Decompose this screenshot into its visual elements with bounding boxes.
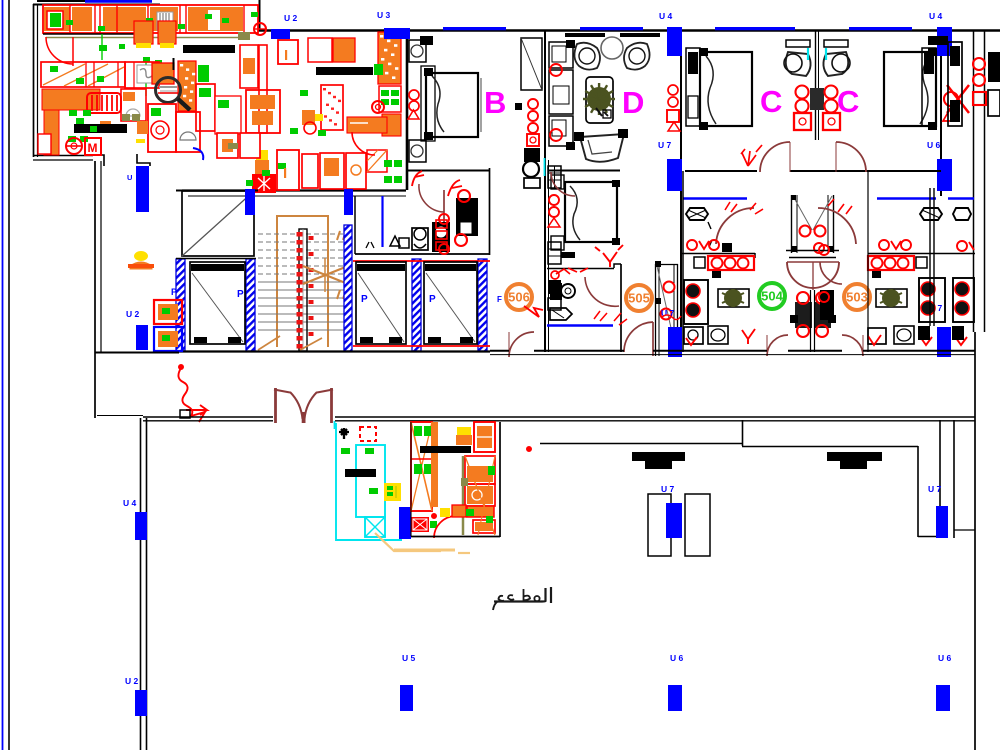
wall right boundary lower bbox=[974, 332, 976, 750]
wall kitchen vestibule east step bbox=[137, 154, 150, 166]
room D plant starburst bbox=[583, 83, 615, 115]
bath505 sink arrow bbox=[550, 308, 572, 320]
wall bath505 east bbox=[620, 264, 622, 352]
svg-text:504: 504 bbox=[761, 289, 783, 304]
wall corridor south segB bbox=[534, 350, 624, 352]
label arabic meem1 loop bbox=[534, 596, 539, 601]
corridor door 505 arc bbox=[624, 322, 653, 352]
label 504 plant table bbox=[717, 288, 719, 290]
kitchen unit with I symbol bbox=[277, 150, 299, 190]
room C1 red wall fixtures bbox=[668, 85, 678, 95]
kitchen lower-left orange column bbox=[44, 110, 59, 155]
buffet yellow-orange box top bbox=[457, 427, 471, 435]
person symbol body orange bbox=[130, 262, 152, 269]
utility red small stack bbox=[436, 220, 447, 228]
buffet cyan inner box bbox=[356, 445, 385, 517]
kitchen mid counter band red frame bbox=[41, 62, 125, 87]
wall bath505 north bbox=[547, 268, 614, 270]
Croom2 blue shower line bbox=[877, 197, 936, 200]
kitchen orange shelf bar right bbox=[347, 117, 387, 133]
wall right column enclosure bbox=[939, 420, 941, 538]
kitchen lower mid red boxes pair bbox=[217, 133, 238, 158]
svg-text:F: F bbox=[497, 295, 502, 304]
column marker U2 west bottom bbox=[135, 690, 147, 716]
hatched wall elev left outer bbox=[176, 259, 185, 351]
buffet cyan triangle box bbox=[365, 517, 385, 537]
label arabic alef lam strokes bbox=[542, 587, 551, 603]
column marker restaurant right bbox=[936, 506, 948, 538]
svg-text:U 2: U 2 bbox=[284, 13, 298, 23]
room506 bed bbox=[565, 182, 617, 242]
shaft505 black dots bbox=[655, 261, 661, 267]
kitchen black tick bbox=[173, 58, 175, 70]
room B cyan tick bbox=[544, 158, 546, 176]
entrance door right leaf top bbox=[317, 390, 333, 393]
kitchen right fan unit red bbox=[252, 174, 276, 193]
red line right elevators top bbox=[353, 260, 490, 262]
elevator cabin 3 bbox=[424, 262, 477, 344]
kitchen orange hatch square bottom bbox=[367, 150, 387, 172]
wheat leader line bbox=[375, 533, 441, 551]
kitchen red unit with arch bbox=[121, 89, 146, 121]
kitchen tall unit red frame right of strip bbox=[196, 84, 215, 131]
kitchen top band white gap bbox=[208, 10, 220, 30]
Croom1 red V bottom bbox=[742, 329, 755, 344]
kitchen top white box pair right section bbox=[308, 38, 332, 62]
kitchen top band orange blocks bbox=[44, 7, 70, 31]
buffet orange box top right bbox=[474, 422, 495, 452]
Croom1 black bit bbox=[722, 243, 732, 252]
room B nightstand lower bbox=[409, 140, 426, 162]
column marker U4 right tall bbox=[937, 27, 952, 56]
frame left inner black line bbox=[8, 0, 10, 750]
column marker 503 corridor bbox=[937, 327, 951, 357]
buffet wall west bbox=[410, 422, 412, 536]
room right wardrobe bar bbox=[928, 36, 948, 45]
room503 red Os left bbox=[819, 245, 829, 255]
wall bath505 jog bbox=[614, 264, 621, 268]
buffet wall east bbox=[499, 422, 501, 537]
label restaurant arabic almataam baseline bbox=[494, 600, 542, 602]
door arc room D entry bbox=[551, 172, 575, 196]
kitchen black bar shelf lower bbox=[74, 124, 127, 133]
buffet green labels bbox=[341, 448, 350, 454]
storage room box bbox=[182, 191, 254, 256]
room C2 red X fixture bbox=[947, 85, 969, 113]
svg-text:U 4: U 4 bbox=[123, 498, 137, 508]
kitchen lower-left orange desk bbox=[42, 89, 100, 110]
buffet black bar upper bbox=[420, 446, 471, 453]
room D black bits bbox=[566, 40, 575, 48]
utility red F symbol bbox=[412, 171, 424, 186]
column marker U6 mid bottom bbox=[668, 685, 682, 711]
Croom1 red oVo bbox=[687, 240, 697, 250]
svg-text:U 4: U 4 bbox=[929, 11, 943, 21]
buffet right cabinet stack bbox=[465, 456, 495, 484]
door arc room C2 entry bbox=[836, 142, 866, 172]
storage room diagonal bbox=[182, 191, 254, 256]
kitchen top band white cell with green unit bbox=[47, 11, 63, 29]
room D couch inner line bbox=[588, 140, 612, 154]
wall restaurant north left bbox=[143, 416, 273, 418]
kitchen red circle fixture at band end bbox=[254, 23, 266, 35]
Croom2 red hinge dashes bbox=[828, 199, 852, 214]
svg-text:P: P bbox=[237, 289, 244, 300]
fan door 504-503 bbox=[787, 262, 839, 288]
kitchen right red band vertical bbox=[259, 45, 267, 133]
utility red circles bbox=[439, 214, 449, 224]
hatched wall elev left inner bbox=[246, 259, 255, 351]
Croom2 red DOO box bbox=[868, 256, 914, 270]
room right red fixtures edge bbox=[973, 58, 985, 70]
svg-text:U 7: U 7 bbox=[658, 140, 672, 150]
shaft505 red o pair bbox=[664, 282, 675, 293]
kitchen speckled ice machine bbox=[321, 85, 343, 130]
kitchen mid counter hatch bbox=[43, 64, 85, 85]
buffet tall cabinet left bbox=[411, 422, 432, 511]
wall Croom1 mid bbox=[680, 253, 755, 255]
svg-text:U 6: U 6 bbox=[927, 140, 941, 150]
wall kitchen south long double bbox=[182, 189, 406, 191]
corridor door 505 vline bbox=[652, 322, 654, 356]
wall Croom2 mid bbox=[868, 253, 975, 255]
entrance door right leaf arc bbox=[305, 392, 318, 419]
Croom2 red oVo bbox=[879, 240, 889, 250]
kitchen green dot pairs bottom right bbox=[384, 160, 392, 167]
room D kitchenette column bbox=[549, 42, 573, 68]
Croom1 door arc bottom bbox=[767, 335, 788, 356]
column marker U2 stairs-left bbox=[136, 325, 148, 350]
room506 nightstand upper bbox=[551, 175, 564, 189]
kitchen magnifier handle bbox=[178, 99, 190, 110]
kitchen red striped machine bbox=[87, 93, 121, 113]
room right black tall unit bbox=[948, 42, 962, 126]
svg-text:P: P bbox=[361, 294, 368, 305]
wall right boundary double upper bbox=[973, 30, 975, 332]
stairs red dots column A bbox=[297, 232, 303, 237]
label arabic meem2 loop and tail bbox=[493, 596, 504, 610]
column marker U1 tall bbox=[136, 166, 149, 212]
room D couch corner pads bbox=[574, 132, 584, 141]
bath505 blue shower line bbox=[547, 324, 613, 327]
room C1 bed pillow bbox=[706, 56, 716, 124]
shaft C lower walls bbox=[791, 195, 793, 253]
svg-text:I: I bbox=[284, 47, 288, 64]
wall restaurant north inner bbox=[335, 420, 975, 422]
kitchen vestibule yellow tick bbox=[136, 139, 145, 143]
entrance door left leaf arc bbox=[290, 392, 303, 419]
column marker U6 mid right bbox=[937, 159, 952, 191]
utility black appliance right bbox=[456, 198, 478, 236]
bath505 door arc bbox=[585, 277, 619, 306]
Croom1 black dashes bbox=[708, 222, 712, 247]
kitchen top band gray grill texture bbox=[157, 12, 173, 30]
room C2 dressing cyan tick bbox=[825, 48, 827, 60]
room D top wall black bars bbox=[565, 33, 605, 37]
entrance door center post left bbox=[302, 412, 305, 423]
room506 foot bench bbox=[561, 252, 575, 258]
wall utility west bbox=[354, 196, 356, 254]
buffet orange vertical band bbox=[431, 422, 438, 507]
kitchen speckled orange column right bbox=[378, 32, 401, 84]
stairs orange bottom diagonals bbox=[258, 336, 280, 350]
wall kitchen west double bbox=[33, 4, 35, 157]
wall kitchen east bbox=[406, 30, 409, 190]
kitchen khaki service line bbox=[46, 37, 250, 39]
kitchen black bar right section bbox=[316, 67, 373, 75]
wall restaurant inner vertical stub bbox=[742, 420, 744, 446]
room503 black box left wall bbox=[820, 290, 834, 320]
wall bath band C rooms bbox=[685, 170, 757, 172]
wall restaurant west double bbox=[140, 418, 142, 750]
wall core top bbox=[176, 190, 258, 192]
Croom2 red V bottom bbox=[868, 335, 881, 345]
kitchen top band cell dividers red bbox=[69, 5, 71, 33]
kitchen chair orange yellow 1 bbox=[134, 21, 153, 44]
svg-text:U 7: U 7 bbox=[661, 484, 675, 494]
stairs orange X cross bbox=[303, 266, 348, 284]
red branch symbol C1 bbox=[741, 145, 762, 166]
utility trolley bbox=[412, 228, 428, 250]
svg-text:503: 503 bbox=[846, 290, 868, 305]
stairs treads bbox=[258, 233, 348, 235]
svg-text:B: B bbox=[484, 85, 506, 120]
kitchen unit with I symbol top bbox=[278, 40, 298, 64]
person symbol head bbox=[134, 251, 148, 261]
room B lower wall bbox=[407, 170, 490, 172]
wall corridor west stub bbox=[95, 352, 179, 354]
hatched wall elev right outer bbox=[478, 259, 487, 351]
room C1 bed corners bbox=[699, 48, 708, 56]
kitchen mid white counter bbox=[215, 96, 241, 134]
svg-text:P: P bbox=[429, 294, 436, 305]
utility fixtures small black bbox=[390, 236, 400, 246]
wall corridor south segE bbox=[863, 350, 975, 352]
wall top main horizontal bbox=[258, 29, 1000, 31]
room C2 bed bbox=[884, 52, 936, 126]
room C1 dressing cyan tick bbox=[807, 48, 809, 60]
Croom2 bathtub left bbox=[920, 208, 942, 220]
shaft C red circles bbox=[796, 86, 809, 99]
kitchen box with M symbol bbox=[85, 138, 101, 155]
room B bed bbox=[426, 73, 478, 137]
room D plant pot detail bbox=[596, 108, 608, 116]
buffet small yellow orange mid bbox=[440, 508, 450, 517]
kitchen green vline and ticks bbox=[101, 34, 103, 60]
wall kitchen sw corner jog bbox=[93, 155, 104, 166]
room506 bed pillow bbox=[570, 186, 580, 240]
bath B grid box lower bbox=[548, 242, 561, 264]
kitchen blue swing mark bbox=[193, 148, 203, 160]
red line right elevators bottom bbox=[353, 345, 490, 347]
buffet door red arc bbox=[434, 516, 456, 538]
kitchen washing red circle fixture bbox=[66, 138, 82, 154]
Croom1 bathtub bbox=[686, 208, 708, 220]
kitchen counter line below band bbox=[43, 33, 146, 35]
label arabic tah bbox=[524, 589, 531, 601]
room B bed corner blocks bbox=[424, 68, 433, 76]
kitchen red tall unit center bbox=[148, 104, 176, 152]
entrance door center post right bbox=[303, 412, 306, 423]
Croom2 door arc bbox=[818, 208, 856, 244]
shaft C twin grid upper bbox=[810, 88, 824, 110]
kitchen right cluster yellow orange bbox=[256, 150, 268, 161]
room C2 bedside unit bbox=[922, 48, 936, 126]
svg-text:U: U bbox=[127, 173, 132, 182]
kitchen orange small sq bbox=[100, 121, 111, 133]
door arc room C1 entry bbox=[760, 142, 790, 172]
wheat underline bbox=[394, 549, 455, 552]
svg-text:506: 506 bbox=[508, 290, 530, 305]
wall restaurant north main bbox=[335, 416, 975, 418]
room C2 bed corners bbox=[928, 48, 937, 56]
stairs center rail bbox=[299, 229, 307, 351]
Croom2 bottom sinks bbox=[868, 328, 886, 344]
center stoves units bbox=[795, 302, 812, 328]
room C1 dressing chair bbox=[786, 52, 811, 76]
room B nightstand upper bbox=[409, 40, 426, 62]
kitchen yellow tick mid bbox=[136, 139, 145, 143]
red route arrow squiggle bbox=[178, 368, 205, 422]
wall core bottom bbox=[176, 350, 490, 352]
wall corridor south segA bbox=[490, 350, 509, 352]
bath505 red scribbles bbox=[556, 268, 588, 274]
column marker core top-right bbox=[344, 189, 353, 215]
svg-text:505: 505 bbox=[628, 291, 650, 306]
wall above left elevator bbox=[176, 258, 256, 260]
kitchen green label right bbox=[374, 64, 383, 75]
bath B grid box upper bbox=[548, 166, 561, 188]
hatched wall elev right inner bbox=[412, 259, 421, 351]
restaurant table black left bbox=[632, 452, 685, 461]
kitchen red ring fixture right bbox=[372, 101, 384, 113]
kitchen door arc red bbox=[46, 37, 73, 64]
room B bed headboard bbox=[421, 66, 435, 141]
room B red f symbol bbox=[448, 180, 462, 196]
kitchen door arc red lower bbox=[352, 132, 375, 155]
column marker U3 wide bbox=[384, 28, 410, 39]
Croom1 plant table bbox=[718, 289, 749, 307]
buffet black bar bbox=[345, 469, 376, 477]
svg-text:U 7: U 7 bbox=[928, 484, 942, 494]
room D couch outline bbox=[580, 134, 624, 162]
entrance door right leaf post bbox=[330, 388, 333, 423]
room506 bed corner blocks bbox=[612, 180, 620, 187]
kitchen red unit w white arch bbox=[176, 112, 200, 152]
buffet red cabinet with X bbox=[411, 517, 429, 532]
shaft C lower V diagonals bbox=[793, 196, 812, 230]
Croom1 black bits mid bbox=[694, 257, 705, 268]
kitchen chair orange yellow 2 bbox=[158, 21, 176, 44]
kitchen right green bits bbox=[246, 180, 253, 186]
column marker U7 mid bbox=[667, 159, 682, 191]
column marker U4 west bbox=[135, 512, 147, 540]
wall utility south bbox=[355, 253, 490, 255]
Croom1 bottom sink A bbox=[684, 327, 703, 344]
buffet plant black bbox=[339, 428, 349, 439]
kitchen white box far left bbox=[38, 134, 51, 154]
door arc room 506 entry bbox=[509, 332, 534, 357]
entrance cyan tick bbox=[334, 421, 336, 429]
bath505 toilet black bbox=[550, 283, 562, 300]
bath505 red hinge dashes bbox=[594, 311, 627, 325]
column marker U2 wide bbox=[271, 29, 290, 39]
Croom1 stoves at west wall bbox=[684, 280, 708, 324]
shaft C lower red circles bbox=[800, 226, 811, 237]
room C2 dressing chair bbox=[823, 52, 848, 76]
wall room D east bbox=[680, 30, 682, 352]
entrance door left leaf post bbox=[274, 388, 277, 423]
wall under fan door vertical pair bbox=[810, 290, 812, 352]
black stub at arrow bbox=[180, 410, 190, 418]
wire blue dash on top wall 3 bbox=[715, 27, 795, 30]
column marker 505 corridor bbox=[668, 327, 682, 357]
room D round table bbox=[601, 37, 623, 59]
room C1 bedside unit bbox=[686, 48, 700, 126]
wire blue dash on top wall 1 bbox=[443, 27, 506, 30]
svg-text:M: M bbox=[88, 141, 98, 155]
shaft505 red scribble over label bbox=[661, 315, 681, 320]
wall room C2 east bbox=[940, 30, 942, 196]
stairs orange U outline bbox=[277, 216, 328, 347]
kitchen mid unit 2 red frame bbox=[125, 62, 159, 88]
column marker buffet bbox=[399, 507, 411, 539]
kitchen orange square with yellow tab bbox=[302, 110, 315, 125]
shaft C red squares bbox=[794, 113, 811, 130]
buffet wall south bbox=[411, 536, 500, 538]
hatched wall elev mid bbox=[344, 225, 352, 351]
kitchen khaki dash 2 bbox=[228, 143, 238, 149]
wall top edge blue segment bbox=[85, 0, 152, 3]
wall top edge black segment bbox=[37, 0, 85, 2]
elevator cabin 1 bbox=[190, 262, 245, 344]
utility door arc bbox=[419, 184, 444, 212]
svg-text:I: I bbox=[283, 165, 287, 182]
wall restaurant inner right bbox=[742, 446, 918, 448]
buffet red door dot bbox=[527, 447, 532, 452]
kitchen black bar shelf upper bbox=[183, 45, 235, 53]
room B black dot bbox=[515, 103, 522, 110]
wall bath band D room bbox=[548, 170, 620, 172]
shaft C lower red circle bottom bbox=[814, 243, 824, 253]
column marker U6 right bottom bbox=[936, 685, 950, 711]
red route arrow head bbox=[186, 405, 207, 415]
wall corridor south inner line bbox=[490, 354, 975, 356]
svg-text:U 3: U 3 bbox=[377, 10, 391, 20]
wall B bath stub bbox=[489, 168, 491, 255]
room B bath red stack bbox=[528, 99, 538, 109]
buffet red dashed square bbox=[360, 427, 376, 441]
svg-text:U 2: U 2 bbox=[125, 676, 139, 686]
kitchen right cab B bbox=[246, 90, 280, 133]
restaurant column pair bbox=[648, 494, 671, 556]
room B red wall fixtures bbox=[409, 90, 419, 100]
room D armchair right bbox=[624, 43, 650, 70]
label arabic ayn loop bbox=[508, 595, 514, 600]
wall kitchen north bbox=[33, 4, 160, 6]
column marker U5 bbox=[400, 685, 413, 711]
utility red O markers bbox=[458, 190, 470, 202]
Croom2 bathtub right bbox=[953, 208, 971, 220]
entrance door left leaf top bbox=[274, 390, 290, 393]
wall restaurant inner right down bbox=[917, 446, 919, 537]
Croom1 bottom sink B bbox=[708, 326, 728, 344]
svg-text:U 5: U 5 bbox=[402, 653, 416, 663]
kitchen top band red frame bbox=[43, 5, 258, 33]
Croom1 red DOO box bbox=[708, 256, 754, 270]
Croom2 stoves right pair bbox=[919, 278, 945, 322]
shaft C bottom plates bbox=[786, 250, 839, 252]
